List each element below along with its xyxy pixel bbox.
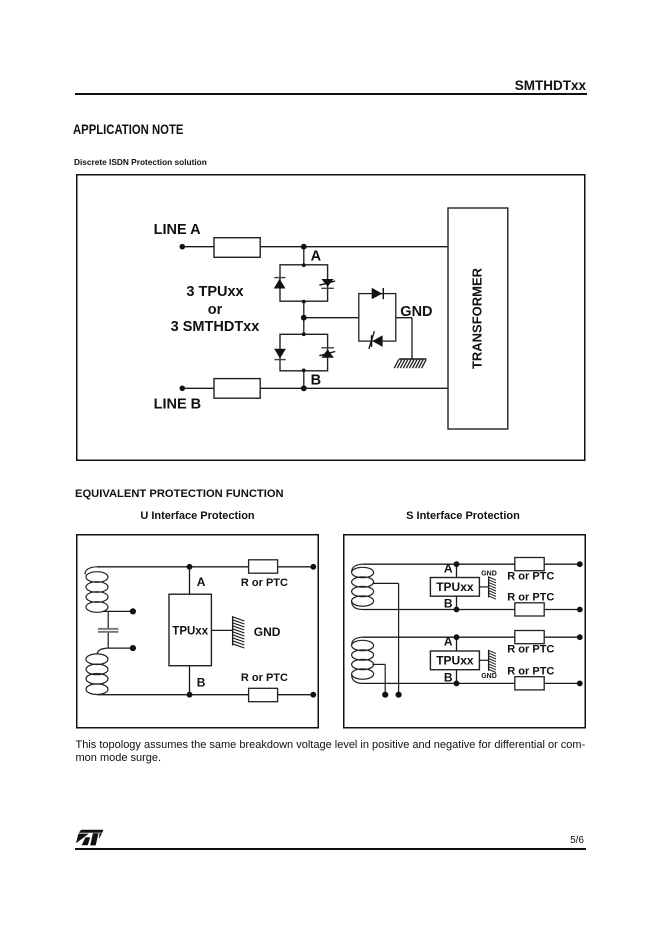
svg-text:or: or bbox=[208, 302, 223, 318]
svg-text:LINE A: LINE A bbox=[154, 222, 202, 238]
svg-text:B: B bbox=[197, 675, 206, 689]
svg-text:B: B bbox=[444, 670, 453, 684]
svg-text:GND: GND bbox=[400, 304, 432, 320]
svg-text:3 SMTHDTxx: 3 SMTHDTxx bbox=[171, 319, 260, 335]
svg-text:R or PTC: R or PTC bbox=[507, 665, 554, 677]
svg-text:TPUxx: TPUxx bbox=[436, 654, 474, 668]
svg-text:B: B bbox=[444, 597, 453, 611]
svg-text:GND: GND bbox=[481, 673, 497, 680]
svg-text:TPUxx: TPUxx bbox=[436, 580, 474, 594]
svg-text:B: B bbox=[311, 373, 321, 389]
svg-text:A: A bbox=[311, 248, 322, 264]
svg-text:TPUxx: TPUxx bbox=[172, 626, 208, 638]
svg-text:R or PTC: R or PTC bbox=[507, 592, 554, 604]
svg-text:R or PTC: R or PTC bbox=[507, 571, 554, 583]
svg-text:GND: GND bbox=[481, 570, 497, 577]
svg-text:3 TPUxx: 3 TPUxx bbox=[186, 284, 243, 300]
svg-text:LINE B: LINE B bbox=[154, 397, 202, 413]
svg-text:R or PTC: R or PTC bbox=[507, 644, 554, 656]
svg-text:A: A bbox=[444, 635, 453, 649]
svg-text:R or PTC: R or PTC bbox=[241, 577, 288, 589]
svg-text:R or PTC: R or PTC bbox=[241, 672, 288, 684]
svg-text:A: A bbox=[444, 562, 453, 576]
svg-text:GND: GND bbox=[254, 625, 281, 639]
svg-text:A: A bbox=[197, 575, 206, 589]
svg-text:TRANSFORMER: TRANSFORMER bbox=[469, 267, 484, 369]
